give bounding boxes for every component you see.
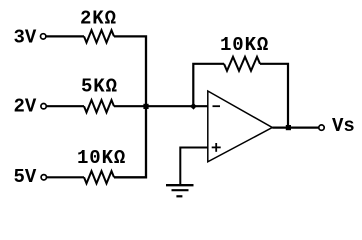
svg-text:Vs: Vs	[332, 115, 355, 137]
resistor R1 2KΩ	[84, 30, 114, 42]
terminal 3V input	[41, 34, 46, 39]
junction summing node	[143, 104, 148, 109]
ground	[166, 185, 194, 196]
svg-text:5V: 5V	[14, 166, 37, 188]
wire R2 to op-amp inverting input	[114, 105, 208, 107]
junction output node	[286, 125, 291, 130]
svg-text:2KΩ: 2KΩ	[80, 8, 117, 30]
wire op-amp output to Vs terminal	[272, 126, 318, 128]
junction feedback tap	[190, 103, 197, 110]
wire 5V terminal to R3	[47, 176, 84, 178]
wire non-inverting input to ground	[180, 148, 208, 185]
svg-text:10KΩ: 10KΩ	[220, 34, 269, 56]
resistor R2 5KΩ	[84, 100, 114, 112]
wire feedback down branch to output	[260, 64, 288, 128]
resistor R3 10KΩ	[84, 171, 114, 183]
svg-text:3V: 3V	[14, 27, 37, 49]
resistor Rf 10KΩ feedback	[224, 57, 260, 71]
svg-text:5KΩ: 5KΩ	[81, 76, 118, 98]
wire feedback up branch	[193, 64, 224, 107]
op-amp U1	[208, 91, 272, 162]
wire 2V terminal to R2	[47, 105, 84, 107]
terminal 5V input	[41, 175, 46, 180]
svg-text:2V: 2V	[14, 96, 37, 118]
wire R1 to bus corner	[114, 36, 146, 106]
terminal Vs output	[319, 125, 324, 130]
wire R3 to bus corner	[114, 106, 146, 177]
terminal 2V input	[41, 104, 46, 109]
svg-text:10KΩ: 10KΩ	[77, 147, 126, 169]
wire 3V terminal to R1	[46, 35, 84, 37]
pin minus	[213, 105, 221, 107]
pin plus	[212, 143, 221, 152]
